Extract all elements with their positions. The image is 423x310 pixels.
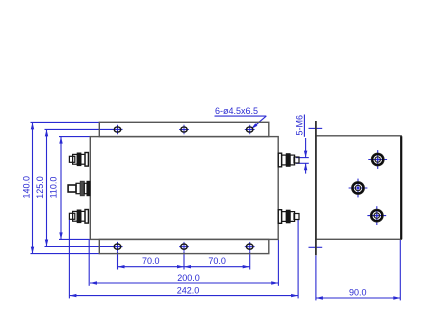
side view: enclosure outline <box>316 136 401 240</box>
terminal end view B1 <box>368 150 387 169</box>
terminal stud T3 (left side) <box>69 210 88 224</box>
dimension 242.0 <box>69 285 298 297</box>
front view: top mounting flange <box>99 122 268 136</box>
svg-text:125.0: 125.0 <box>35 176 45 199</box>
dimension 70.0 (right) <box>184 256 250 268</box>
dimension 90.0 <box>316 287 400 299</box>
slot extension lines for 70.0 dimensions <box>117 252 119 270</box>
dimension 125.0 extension lines <box>45 128 123 130</box>
svg-text:5-M6: 5-M6 <box>295 115 305 136</box>
side view: bottom slot centerline tick <box>309 246 323 248</box>
side view: top slot centerline tick <box>309 127 323 129</box>
terminal stud T1 (left side) <box>69 153 88 167</box>
front view: filter body plate <box>90 137 278 240</box>
side view: mounting flange plate <box>315 121 317 255</box>
svg-text:70.0: 70.0 <box>142 256 160 266</box>
terminal stud T4 (right side) <box>278 153 299 167</box>
mounting slot top 3 <box>245 125 255 134</box>
terminal stud T5 (right side) <box>278 210 299 224</box>
dimension 140.0 extension lines <box>31 121 100 123</box>
note 6-ø4.5x6.5 with leader to slot <box>215 106 267 129</box>
svg-text:70.0: 70.0 <box>208 256 226 266</box>
terminal end view B2 <box>349 179 368 198</box>
side view: far edge (thick) <box>400 136 402 239</box>
mounting slot bottom 1 <box>113 242 123 251</box>
svg-text:140.0: 140.0 <box>22 176 32 199</box>
svg-text:110.0: 110.0 <box>49 177 59 199</box>
svg-text:200.0: 200.0 <box>177 273 200 283</box>
dimension 200.0 <box>90 273 278 285</box>
dimension 70.0 (left) <box>118 256 185 268</box>
front view: bottom mounting flange <box>99 239 268 253</box>
mounting slot top 2 <box>179 125 189 134</box>
dimension 125.0 <box>35 129 48 246</box>
dimension 140.0 <box>22 122 35 253</box>
dimension 110.0 extension lines <box>59 136 90 138</box>
body extension lines for 200.0 <box>88 240 90 286</box>
terminal-tip extension lines for 242.0 <box>68 220 70 299</box>
note 5-M6 stud dimension <box>295 115 309 174</box>
svg-text:242.0: 242.0 <box>177 285 200 295</box>
terminal end view B3 <box>367 206 386 225</box>
mounting slot bottom 2 <box>179 242 189 251</box>
terminal stud T2 (left side, middle) <box>68 181 90 195</box>
dimension 110.0 <box>49 137 63 240</box>
mounting slot top 1 <box>113 125 123 134</box>
svg-text:90.0: 90.0 <box>349 287 367 297</box>
mounting slot bottom 3 <box>245 242 255 251</box>
svg-text:6-ø4.5x6.5: 6-ø4.5x6.5 <box>215 106 258 116</box>
extension lines for 90.0 <box>315 256 317 301</box>
